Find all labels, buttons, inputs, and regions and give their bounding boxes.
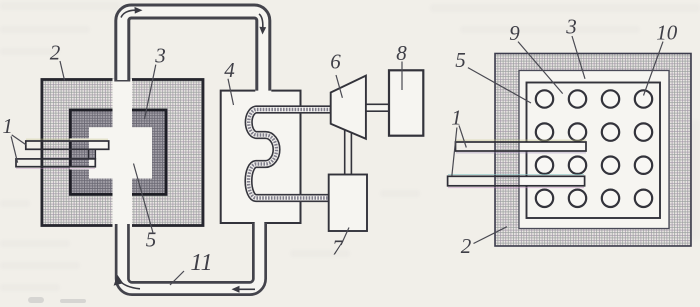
svg-text:1: 1	[2, 114, 13, 138]
leader 11	[170, 271, 184, 285]
primary loop bottom pipe 11 walls	[122, 223, 259, 289]
svg-text:1: 1	[451, 105, 462, 129]
reactor vessel / reflector 3 (left)	[70, 110, 166, 194]
flow arrow bottom run (leftward)	[239, 288, 255, 290]
leader 10	[644, 42, 664, 96]
inner white region	[519, 71, 669, 229]
leader 3 left	[145, 65, 156, 119]
control rod 1d (right diagram, lower)	[522, 176, 585, 186]
leader 2 right	[474, 227, 507, 244]
steam pipe turbine to condenser	[344, 129, 346, 175]
white halo above control rod 1a	[70, 138, 91, 141]
svg-text:10: 10	[656, 21, 678, 45]
svg-text:7: 7	[332, 236, 344, 260]
condenser 7	[329, 175, 367, 232]
svg-text:2: 2	[50, 41, 61, 65]
leader 1 left a	[12, 135, 26, 145]
core cavity 5	[89, 127, 152, 178]
white halo below control rod 1b	[70, 167, 91, 170]
fuel channel circles 9/10 grid	[536, 90, 652, 207]
scan colour fringes on rods	[16, 139, 586, 187]
control rod 1c (right diagram, upper)	[522, 142, 587, 151]
reactor biological shield 2 (left)	[42, 80, 203, 226]
svg-text:5: 5	[455, 48, 466, 72]
control rod 1b (left diagram, lower)	[16, 159, 95, 167]
leader 2 left	[60, 61, 65, 80]
svg-text:5: 5	[146, 228, 157, 252]
flow arrow bottom-left corner (up-left)	[120, 281, 140, 289]
heat exchanger 4 vessel	[221, 91, 301, 223]
turbine 6	[331, 76, 366, 139]
svg-text:6: 6	[330, 50, 341, 74]
leader 6	[336, 75, 342, 98]
leader 1 left b	[11, 136, 18, 162]
primary loop top pipe walls	[122, 12, 263, 91]
leader 8	[401, 62, 403, 91]
svg-text:9: 9	[509, 21, 520, 45]
control rod 1a (left diagram, upper)	[26, 141, 109, 149]
leader 5 left	[134, 164, 153, 233]
svg-text:11: 11	[190, 250, 212, 276]
shaft turbine-generator	[366, 104, 389, 111]
flow arrow right vertical (downward)	[259, 14, 263, 28]
leader 1 right a	[459, 125, 466, 147]
primary loop top pipe (reactor to HX) white bore	[122, 12, 263, 94]
leader 5 right	[468, 68, 531, 103]
shield square 2 (right)	[495, 54, 691, 247]
svg-text:8: 8	[396, 41, 407, 65]
svg-text:3: 3	[154, 44, 166, 68]
svg-text:2: 2	[461, 234, 472, 258]
leader 3 right	[572, 36, 585, 79]
rod guide block between rods	[89, 149, 96, 159]
flow arrow top-left (rightward)	[121, 10, 135, 17]
coolant channel through block	[113, 78, 133, 227]
svg-text:4: 4	[224, 58, 235, 82]
core vessel (right)	[527, 83, 661, 219]
leader 9	[518, 42, 563, 94]
leader 4	[228, 79, 234, 105]
leader 7	[341, 228, 349, 246]
svg-text:3: 3	[565, 15, 577, 39]
steam coil in HX, to turbine and from condenser	[249, 110, 331, 199]
leader 1 right b	[452, 128, 457, 176]
generator 8	[389, 70, 423, 135]
